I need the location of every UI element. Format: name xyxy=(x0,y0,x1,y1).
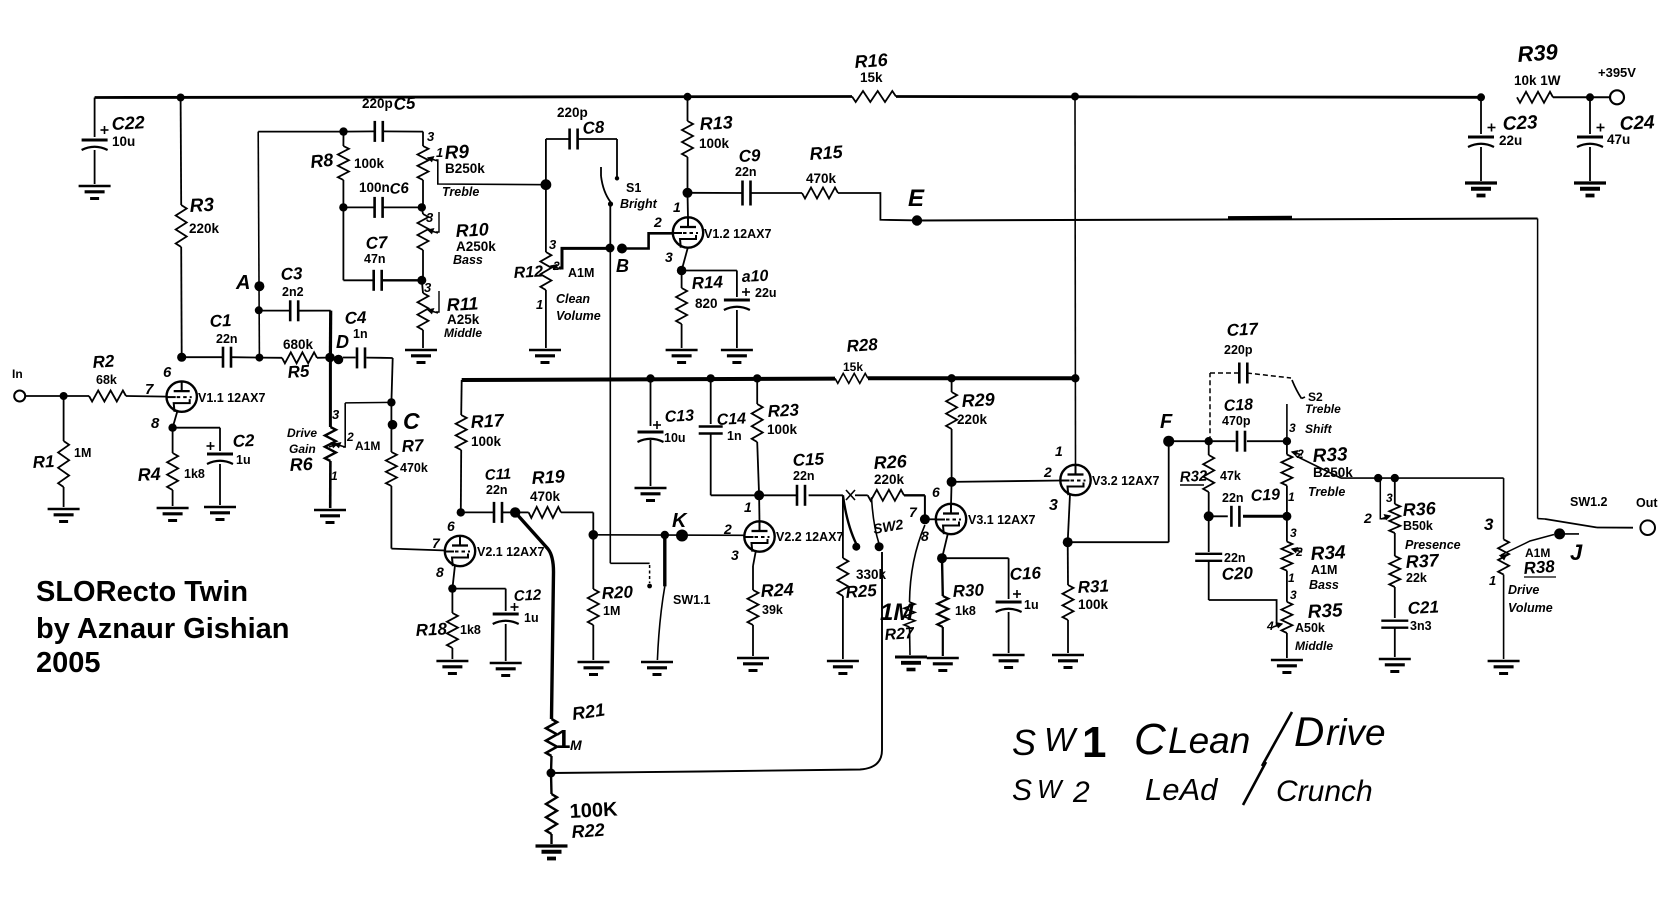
resistor R2 68k xyxy=(89,391,126,402)
svg-text:Treble: Treble xyxy=(1308,485,1345,499)
svg-text:3: 3 xyxy=(426,210,434,225)
svg-text:R7: R7 xyxy=(401,436,425,456)
wire R26 to V3.1 grid xyxy=(924,495,926,519)
svg-text:1: 1 xyxy=(1288,571,1295,585)
svg-text:3: 3 xyxy=(1290,588,1297,602)
svg-text:1M: 1M xyxy=(603,604,620,618)
node A vertical wire xyxy=(258,132,259,358)
resistor R39 10k 1W xyxy=(1517,92,1553,103)
svg-text:R39: R39 xyxy=(1517,39,1560,67)
node R21/R22 junction xyxy=(547,769,556,778)
capacitor C22 10u xyxy=(94,98,96,138)
wire node B down to SW1.1 xyxy=(609,248,611,563)
svg-text:C1: C1 xyxy=(209,311,232,331)
svg-text:R24: R24 xyxy=(760,579,794,601)
svg-text:C22: C22 xyxy=(111,112,145,134)
wire drive signal to R21 xyxy=(515,512,553,719)
svg-text:C18: C18 xyxy=(1223,396,1253,415)
svg-text:F: F xyxy=(1160,411,1173,433)
svg-text:1: 1 xyxy=(436,145,443,160)
svg-text:1: 1 xyxy=(1288,490,1295,504)
node C6 left junction xyxy=(339,203,347,211)
svg-text:R13: R13 xyxy=(699,112,733,134)
svg-text:100n: 100n xyxy=(359,180,390,195)
svg-text:3: 3 xyxy=(731,547,739,563)
svg-text:R6: R6 xyxy=(289,454,314,475)
svg-text:680k: 680k xyxy=(283,337,314,352)
resistor R23 100k xyxy=(756,378,758,404)
capacitor C15 22n xyxy=(759,494,797,496)
capacitor C10 22u xyxy=(682,270,737,272)
svg-text:22n: 22n xyxy=(1222,491,1244,505)
svg-text:C20: C20 xyxy=(1221,563,1254,584)
svg-text:2: 2 xyxy=(653,214,662,230)
svg-text:B250k: B250k xyxy=(445,161,485,176)
ground C22 xyxy=(79,185,111,187)
svg-text:R38: R38 xyxy=(1523,557,1556,578)
svg-text:V1.1 12AX7: V1.1 12AX7 xyxy=(198,391,265,405)
ground C23 xyxy=(1465,181,1497,184)
svg-text:2n2: 2n2 xyxy=(282,285,304,299)
svg-text:22n: 22n xyxy=(735,165,757,179)
svg-text:2: 2 xyxy=(346,430,354,444)
svg-text:B50k: B50k xyxy=(1403,519,1433,533)
node R1 top xyxy=(60,392,68,400)
capacitor C13 10u xyxy=(650,379,652,427)
svg-text:R17: R17 xyxy=(470,410,505,432)
op-amp V1.2 triode 12AX7 xyxy=(673,217,703,247)
svg-text:1k8: 1k8 xyxy=(955,604,976,618)
svg-text:22n: 22n xyxy=(1224,551,1246,565)
svg-text:K: K xyxy=(672,510,688,532)
svg-text:C7: C7 xyxy=(365,233,389,253)
svg-text:1: 1 xyxy=(1055,443,1063,459)
wire R6 wiper loop xyxy=(345,401,391,404)
node B xyxy=(606,244,615,253)
node A xyxy=(254,281,264,291)
svg-text:S: S xyxy=(1012,722,1036,763)
svg-text:7: 7 xyxy=(432,535,441,551)
svg-text:R4: R4 xyxy=(137,464,161,485)
resistor R31 100k xyxy=(1067,542,1069,585)
svg-text:R23: R23 xyxy=(767,400,800,421)
potentiometer R38 A1M Drive Volume xyxy=(1503,478,1505,539)
svg-text:470p: 470p xyxy=(1222,414,1251,428)
resistor R1 1M xyxy=(63,396,65,441)
svg-text:Drive: Drive xyxy=(287,426,317,440)
svg-text:R20: R20 xyxy=(601,582,634,603)
svg-text:R32: R32 xyxy=(1179,468,1208,486)
svg-text:R2: R2 xyxy=(92,351,116,372)
svg-text:R8: R8 xyxy=(309,150,334,172)
ground R6 xyxy=(314,509,346,511)
svg-text:7: 7 xyxy=(145,381,154,398)
node V1.1 plate junction xyxy=(177,353,186,362)
svg-text:R14: R14 xyxy=(691,272,724,293)
wire R7 to V2.1 grid xyxy=(391,549,446,551)
svg-text:Crunch: Crunch xyxy=(1276,775,1373,808)
node C dot xyxy=(388,420,398,430)
wire R21 junction to SW2 xyxy=(551,552,882,773)
resistor R13 100k xyxy=(687,97,689,121)
svg-text:Middle: Middle xyxy=(444,326,482,340)
node bus R29 xyxy=(947,374,955,382)
svg-text:rive: rive xyxy=(1326,712,1386,753)
wire presence line xyxy=(1341,477,1504,479)
node C6 right junction xyxy=(418,203,426,211)
svg-text:Lean: Lean xyxy=(1168,720,1250,761)
potentiometer R12 A1M Clean Volume xyxy=(545,185,547,252)
svg-text:R16: R16 xyxy=(854,50,889,72)
svg-text:C21: C21 xyxy=(1407,597,1439,618)
node rail junction C23 xyxy=(1477,93,1485,101)
svg-text:100k: 100k xyxy=(1078,597,1109,612)
svg-text:SLORecto Twin: SLORecto Twin xyxy=(36,576,248,608)
svg-text:220p: 220p xyxy=(1224,343,1253,357)
node V2.2 plate junction xyxy=(754,490,764,500)
svg-text:6: 6 xyxy=(163,364,172,381)
svg-text:S: S xyxy=(1012,774,1032,807)
svg-text:LeAd: LeAd xyxy=(1145,772,1219,807)
wire rail to +395V xyxy=(1553,96,1610,98)
svg-text:8: 8 xyxy=(436,564,444,580)
switch S1 Bright xyxy=(600,167,602,176)
capacitor C18 470p xyxy=(1236,431,1239,452)
capacitor C19 22n xyxy=(1209,515,1228,517)
node C18 left junction xyxy=(1205,437,1213,445)
ground C24 xyxy=(1574,181,1606,184)
svg-text:2: 2 xyxy=(1072,776,1090,809)
svg-text:+395V: +395V xyxy=(1598,65,1636,80)
resistor R3 220k xyxy=(180,98,183,206)
node C11/R19 junction xyxy=(510,507,520,517)
node R6 wiper junction xyxy=(387,398,395,406)
node R32/C19/C20 junction xyxy=(1204,511,1214,521)
svg-text:D: D xyxy=(336,332,349,352)
svg-text:10u: 10u xyxy=(112,134,135,149)
svg-text:10k 1W: 10k 1W xyxy=(1514,73,1561,88)
svg-text:C8: C8 xyxy=(582,117,606,138)
capacitor C24 47u xyxy=(1589,97,1591,134)
wire node A to tone stack top xyxy=(258,131,343,133)
svg-text:C12: C12 xyxy=(513,587,542,605)
svg-text:2: 2 xyxy=(1363,510,1372,526)
svg-text:3n3: 3n3 xyxy=(1410,619,1432,633)
svg-text:R27: R27 xyxy=(884,625,916,644)
capacitor C16 1u xyxy=(942,557,1009,559)
svg-text:R37: R37 xyxy=(1405,550,1440,572)
svg-text:1k8: 1k8 xyxy=(184,467,205,481)
node R36 top junction xyxy=(1391,474,1399,482)
ground C2 xyxy=(204,506,236,508)
potentiometer R9 B250k Treble xyxy=(422,132,424,146)
capacitor C17 220p with S2 xyxy=(1209,373,1211,441)
svg-text:C11: C11 xyxy=(484,466,511,484)
potentiometer R36 B50k Presence xyxy=(1394,478,1396,504)
wire mid supply bus xyxy=(462,379,835,380)
svg-text:2005: 2005 xyxy=(36,647,101,679)
ground C12 xyxy=(490,662,522,664)
svg-text:E: E xyxy=(908,185,925,212)
svg-text:100k: 100k xyxy=(354,156,385,171)
terminal Out xyxy=(1640,520,1655,535)
svg-text:100k: 100k xyxy=(471,434,502,449)
resistor R5 680k xyxy=(259,357,282,359)
ground R4 xyxy=(157,507,189,509)
svg-text:220p: 220p xyxy=(362,96,393,111)
node D xyxy=(325,353,335,363)
wire top B+ rail xyxy=(95,97,852,98)
potentiometer R35 A50k Middle xyxy=(1286,571,1288,602)
svg-text:2: 2 xyxy=(723,521,732,537)
svg-text:R33: R33 xyxy=(1312,444,1348,467)
svg-text:22n: 22n xyxy=(793,469,815,483)
resistor R28 15k xyxy=(835,373,868,383)
resistor R29 220k xyxy=(951,378,953,392)
svg-text:330k: 330k xyxy=(856,567,887,582)
svg-text:220k: 220k xyxy=(189,221,220,236)
svg-text:47n: 47n xyxy=(364,252,386,266)
capacitor C4 1n xyxy=(343,357,356,359)
svg-text:C4: C4 xyxy=(344,308,367,328)
node rail junction R3 xyxy=(177,94,185,102)
svg-text:Shift: Shift xyxy=(1305,422,1333,436)
svg-text:47u: 47u xyxy=(1607,132,1630,147)
svg-text:C13: C13 xyxy=(664,407,694,426)
svg-text:1n: 1n xyxy=(353,327,368,341)
resistor R24 39k xyxy=(753,550,756,566)
svg-text:39k: 39k xyxy=(762,603,783,617)
ground R11 xyxy=(405,349,437,351)
svg-text:47k: 47k xyxy=(1220,469,1241,483)
svg-text:100k: 100k xyxy=(767,422,798,437)
capacitor C14 1n xyxy=(710,378,712,424)
potentiometer R10 A250k Bass xyxy=(422,207,423,214)
svg-text:220k: 220k xyxy=(874,472,905,487)
svg-text:V3.1 12AX7: V3.1 12AX7 xyxy=(968,513,1035,527)
svg-text:1M: 1M xyxy=(880,599,914,626)
potentiometer R34 A1M Bass xyxy=(1286,516,1288,541)
resistor R8 100k xyxy=(342,132,344,146)
svg-text:R19: R19 xyxy=(531,466,565,488)
wire R33 wiper to presence line xyxy=(1296,456,1341,478)
resistor R26 220k xyxy=(868,490,904,501)
resistor R17 100k xyxy=(460,380,463,415)
resistor R30 1k8 xyxy=(942,533,948,558)
resistor R4 1k8 xyxy=(173,410,178,428)
wire R19 to K line xyxy=(592,512,594,534)
svg-text:R12: R12 xyxy=(513,263,543,282)
resistor R22 100K xyxy=(550,773,553,794)
svg-text:3: 3 xyxy=(1049,497,1058,514)
switch SW1.1 xyxy=(663,537,666,586)
svg-text:R35: R35 xyxy=(1307,600,1343,623)
node V2.1 plate junction xyxy=(457,508,465,516)
resistor R25 330k xyxy=(842,495,844,558)
resistor R18 1k8 xyxy=(452,565,455,589)
svg-text:C9: C9 xyxy=(738,146,761,166)
svg-text:A1M: A1M xyxy=(355,439,380,453)
capacitor C2 1u xyxy=(173,427,220,429)
wire R8 node down to C7 xyxy=(342,207,344,280)
svg-text:22n: 22n xyxy=(216,332,238,346)
ground R27 xyxy=(895,656,927,659)
svg-text:C19: C19 xyxy=(1250,486,1280,505)
svg-text:V3.2 12AX7: V3.2 12AX7 xyxy=(1092,474,1159,488)
capacitor C11 22n xyxy=(461,511,495,513)
op-amp V1.1 triode 12AX7 xyxy=(167,381,197,411)
switch SW2 xyxy=(846,490,855,500)
svg-text:C6: C6 xyxy=(389,180,410,198)
svg-text:3: 3 xyxy=(427,129,435,144)
resistor R20 1M xyxy=(592,535,594,589)
capacitor C7 47n xyxy=(343,279,373,281)
node R20 top xyxy=(589,530,599,540)
op-amp V2.1 triode 12AX7 xyxy=(445,536,475,566)
svg-text:100K: 100K xyxy=(569,798,618,823)
svg-text:C23: C23 xyxy=(1502,112,1538,135)
svg-text:W: W xyxy=(1037,774,1064,804)
svg-text:4: 4 xyxy=(1266,619,1274,633)
wire R2 to V1.1 grid xyxy=(126,395,167,398)
resistor R21 1M xyxy=(546,719,557,756)
svg-text:R22: R22 xyxy=(571,820,605,842)
ground R25 xyxy=(827,660,859,662)
node R13/C9/plate junction xyxy=(683,188,693,198)
node C3 junction xyxy=(255,306,263,314)
svg-text:S1: S1 xyxy=(626,181,641,195)
svg-text:2: 2 xyxy=(552,259,560,273)
node C5/R8 junction xyxy=(339,127,347,135)
svg-text:220p: 220p xyxy=(557,105,588,120)
svg-text:R31: R31 xyxy=(1077,576,1109,597)
wire node B to V1.2 grid xyxy=(622,233,673,248)
svg-text:C15: C15 xyxy=(792,449,825,470)
svg-text:Drive: Drive xyxy=(1508,583,1539,597)
svg-text:C17: C17 xyxy=(1226,319,1260,340)
ground R30 xyxy=(927,657,959,659)
node K xyxy=(676,530,688,542)
svg-text:1: 1 xyxy=(673,199,681,215)
svg-text:2: 2 xyxy=(1043,464,1052,480)
switch SW1.2 xyxy=(1538,518,1545,520)
svg-text:1u: 1u xyxy=(524,611,539,625)
wire K line xyxy=(593,534,744,537)
potentiometer R11 A25k Middle xyxy=(422,280,423,293)
op-amp V2.2 triode 12AX7 xyxy=(744,521,774,551)
wire input to R2 xyxy=(25,395,89,397)
ground R12 xyxy=(529,349,561,351)
resistor R32 47k xyxy=(1208,441,1210,455)
ground C10 xyxy=(721,349,753,351)
capacitor C20 22n xyxy=(1208,516,1210,552)
ground C13 xyxy=(635,487,667,489)
svg-text:8: 8 xyxy=(151,415,160,432)
svg-text:Volume: Volume xyxy=(1508,601,1553,615)
svg-text:SW1.1: SW1.1 xyxy=(673,593,711,607)
svg-text:3: 3 xyxy=(1290,526,1297,540)
ground R24 xyxy=(737,657,769,659)
svg-text:Treble: Treble xyxy=(442,185,479,199)
node F xyxy=(1163,436,1174,447)
svg-text:R26: R26 xyxy=(873,451,908,473)
svg-text:C14: C14 xyxy=(716,410,746,429)
svg-text:A250k: A250k xyxy=(456,239,496,254)
svg-text:A: A xyxy=(235,272,250,294)
svg-text:C: C xyxy=(1134,715,1167,764)
svg-text:1: 1 xyxy=(1082,718,1106,767)
node R34 top junction xyxy=(1282,512,1291,521)
node J xyxy=(1554,528,1565,539)
ground R31 xyxy=(1052,654,1084,656)
node rail junction V1075 feed xyxy=(1071,93,1079,101)
switch S2 Treble Shift xyxy=(1292,380,1302,399)
resistor R27 1M xyxy=(910,525,925,602)
svg-text:R18: R18 xyxy=(415,619,448,640)
wire R9 wiper to clean volume xyxy=(436,160,546,185)
ground R18 xyxy=(436,660,468,662)
node C1/R5/A junction xyxy=(255,354,263,362)
node SW1.1 top xyxy=(661,531,669,539)
svg-text:3: 3 xyxy=(665,249,673,265)
svg-text:220k: 220k xyxy=(957,412,988,427)
resistor R19 470k xyxy=(515,511,528,513)
resistor R15 470k xyxy=(802,188,838,199)
node rail junction R13 xyxy=(684,93,692,101)
svg-text:1k8: 1k8 xyxy=(460,623,481,637)
node R9-wiper / C8 junction xyxy=(541,179,552,190)
svg-text:by Aznaur Gishian: by Aznaur Gishian xyxy=(36,613,290,645)
svg-text:22n: 22n xyxy=(486,483,508,497)
svg-text:6: 6 xyxy=(932,484,940,500)
capacitor C8 220p xyxy=(568,129,571,150)
svg-text:8: 8 xyxy=(921,528,929,544)
wire R15 to node E xyxy=(838,193,912,220)
ground C16 xyxy=(993,654,1025,656)
svg-text:3: 3 xyxy=(1386,491,1393,505)
svg-text:R28: R28 xyxy=(846,335,879,356)
wire R12 wiper to node B xyxy=(559,248,606,268)
ground R20 xyxy=(578,661,610,663)
svg-text:C16: C16 xyxy=(1009,563,1042,584)
terminal +395V xyxy=(1610,90,1624,104)
svg-text:6: 6 xyxy=(447,518,455,534)
ground R1 xyxy=(48,508,80,510)
svg-text:2: 2 xyxy=(1295,545,1303,559)
svg-text:V2.2 12AX7: V2.2 12AX7 xyxy=(776,530,843,544)
svg-text:820: 820 xyxy=(695,296,718,311)
svg-text:Clean: Clean xyxy=(556,292,590,306)
wire B+ feed 1075 xyxy=(1074,97,1077,467)
svg-text:R5: R5 xyxy=(287,361,311,382)
node bus 1075 junction xyxy=(1071,374,1079,382)
resistor R7 470k xyxy=(390,402,392,452)
node R10/R11/C7 junction xyxy=(417,276,426,285)
svg-text:R1: R1 xyxy=(32,452,55,472)
svg-text:7: 7 xyxy=(909,504,918,520)
svg-text:Bass: Bass xyxy=(1309,578,1339,592)
node V3.1 plate junction xyxy=(947,477,957,487)
capacitor C5 220p xyxy=(344,130,375,132)
svg-text:J: J xyxy=(1570,540,1583,565)
svg-text:A50k: A50k xyxy=(1295,621,1325,635)
resistor R16 15k xyxy=(852,91,896,102)
wire node E line to SW1.2 xyxy=(917,219,1538,221)
svg-text:SW1.2: SW1.2 xyxy=(1570,495,1608,509)
svg-text:1: 1 xyxy=(556,724,570,754)
node E xyxy=(912,215,922,225)
ground R22 xyxy=(536,844,568,847)
